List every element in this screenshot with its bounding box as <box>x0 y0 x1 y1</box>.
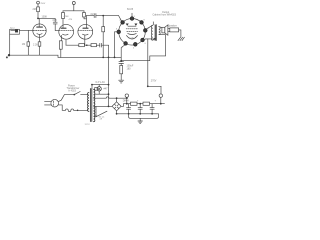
svg-text:off: off <box>100 119 103 121</box>
node plate V1 <box>37 18 39 20</box>
capacitor C1 <box>53 22 59 30</box>
resistor R14 <box>91 44 100 47</box>
svg-text:1M: 1M <box>22 43 25 46</box>
capacitor C3 cathode <box>119 62 124 66</box>
node rail 3 <box>160 103 162 105</box>
input jack J1 <box>10 29 20 34</box>
node bus R8 <box>102 57 104 59</box>
bridge rectifier D1 <box>112 102 121 111</box>
svg-text:270V: 270V <box>151 80 157 83</box>
node rail 1 <box>126 103 128 105</box>
socket V3 outline <box>119 19 146 46</box>
wire HV secondary top <box>94 97 117 102</box>
node bridge minus <box>116 113 118 115</box>
heater loop <box>92 85 109 95</box>
chassis ground speaker <box>178 37 184 40</box>
resistor R6 plate V2b <box>83 13 87 19</box>
svg-text:100K: 100K <box>42 15 48 18</box>
terminal B+ 2 <box>72 2 75 5</box>
svg-text:6CU5: 6CU5 <box>127 8 134 11</box>
transformer T1 output <box>151 22 160 41</box>
svg-text:fr 4023: fr 4023 <box>69 90 77 93</box>
wire OT sec top <box>159 27 162 28</box>
switch S1 <box>95 106 107 117</box>
node cathode net <box>120 60 122 62</box>
node bridge top <box>116 97 118 99</box>
tube V1 <box>33 19 46 42</box>
wire to primary <box>74 109 88 111</box>
wire pin top <box>131 13 133 16</box>
node heater top <box>91 84 93 86</box>
chassis ground cathode <box>119 80 124 83</box>
resistor R12 filter <box>131 102 138 105</box>
resistor R13 filter <box>143 102 150 105</box>
wire bridge right <box>121 104 123 107</box>
svg-text:22K: 22K <box>33 8 38 11</box>
tube V2b <box>78 16 93 46</box>
wire AC hot <box>58 95 74 102</box>
ground symbol supply <box>138 118 143 123</box>
svg-text:250V: 250V <box>41 3 46 5</box>
node heater gnd <box>108 106 110 108</box>
node rail 2 <box>139 103 141 105</box>
capacitor C4 <box>127 104 131 114</box>
wire speaker return <box>121 35 165 61</box>
wire jack ground <box>9 34 11 55</box>
socket internal plate <box>126 24 139 40</box>
wire pin W ground <box>115 32 119 58</box>
wire grid V1 <box>19 29 33 31</box>
svg-text:6CU5: 6CU5 <box>128 37 134 39</box>
socket pin numbers <box>116 16 150 50</box>
resistor R2 cathode <box>38 42 41 55</box>
resistor R4 cathode V2a <box>59 41 62 58</box>
wire to pin grid <box>119 16 122 21</box>
node primary <box>77 110 79 112</box>
node plus <box>126 97 128 99</box>
wire lower rail <box>117 113 159 115</box>
B+ filter rail <box>124 103 165 105</box>
node bus x108 <box>108 57 110 59</box>
wire center vertical <box>108 45 110 106</box>
wire HV secondary AC2 <box>94 105 113 107</box>
wire AC neutral <box>58 105 65 110</box>
speaker SP1 <box>162 25 168 35</box>
switch S2 <box>74 92 88 96</box>
ground bus <box>8 55 121 57</box>
fuse F1 <box>66 109 74 112</box>
svg-text:Speaker: Speaker <box>168 24 177 27</box>
wire B+ split <box>63 5 84 13</box>
terminal B+ right <box>159 94 162 104</box>
wire pin plate to OT <box>146 25 153 29</box>
svg-text:Cabinet from WA4023: Cabinet from WA4023 <box>153 14 177 17</box>
resistor R5 plate V2a <box>62 13 65 19</box>
lamp DS1 <box>97 85 101 95</box>
svg-text:.005: .005 <box>52 19 57 22</box>
capacitor C5 <box>138 104 142 114</box>
wire coupling <box>38 18 55 22</box>
node B+ jog <box>147 85 149 87</box>
node bus left <box>8 54 10 56</box>
node OT B+ <box>154 38 156 40</box>
resistor R1 grid leak <box>27 30 30 55</box>
svg-text:2.2K: 2.2K <box>33 43 38 46</box>
svg-text:#47: #47 <box>104 88 109 91</box>
node lower rail dots <box>128 113 153 115</box>
terminal B+ 1 <box>37 1 40 4</box>
AC plug P1 <box>45 99 59 107</box>
wire bridge minus <box>116 111 118 114</box>
resistor R9 speaker <box>168 28 181 37</box>
svg-text:6.3 V AC: 6.3 V AC <box>96 81 106 84</box>
wire B+ rail top <box>146 39 161 94</box>
svg-text:180: 180 <box>127 68 132 71</box>
capacitor C7 <box>100 43 109 47</box>
wire ground loop <box>129 114 159 119</box>
svg-text:117 V: 117 V <box>85 124 91 126</box>
resistor R7 <box>79 44 91 47</box>
wire bridge plus top <box>117 97 127 99</box>
resistor R11 lamp <box>95 88 98 91</box>
tube V2a <box>59 19 74 41</box>
resistor R3 plate <box>37 4 40 18</box>
terminal out left <box>125 94 128 104</box>
node grid out <box>102 15 104 17</box>
svg-text:Input: Input <box>10 26 15 29</box>
node cathode V2b <box>86 44 88 46</box>
socket pins <box>117 17 147 46</box>
node bus x114 <box>114 57 116 59</box>
wire pin screen B+ <box>143 39 146 40</box>
wire pin cathode <box>121 45 125 62</box>
svg-text:470K: 470K <box>64 16 70 18</box>
capacitor C6 <box>150 104 154 114</box>
transformer T2 power <box>88 89 95 122</box>
capacitor C2 coupling out <box>86 14 118 18</box>
node ground blob <box>6 56 8 58</box>
resistor R8 grid <box>102 16 105 58</box>
wire cathode bias <box>66 40 79 45</box>
resistor R10 cathode <box>120 65 123 79</box>
